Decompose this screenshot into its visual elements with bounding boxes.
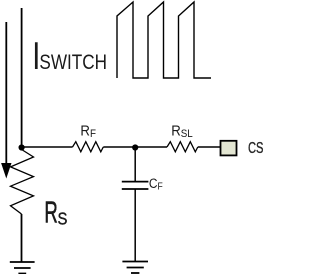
svg-text:CS: CS	[248, 139, 264, 156]
wire rail from node A to R_F	[22, 146, 73, 148]
wire rail R_F to R_SL	[103, 146, 167, 148]
wire C_F to ground	[134, 189, 136, 262]
waveform I_SWITCH sawtooth	[117, 2, 211, 78]
label R_F	[80, 122, 96, 140]
capacitor C_F top plate	[122, 181, 149, 183]
wire node B down to C_F	[134, 148, 136, 182]
svg-text:RF: RF	[80, 122, 96, 140]
wire R_SL to CS pin	[198, 146, 220, 148]
svg-text:CF: CF	[149, 175, 163, 192]
label I_SWITCH	[32, 35, 107, 78]
ground (left)	[10, 262, 35, 274]
node A junction dot	[19, 144, 25, 150]
svg-text:R: R	[44, 196, 57, 230]
node B junction dot	[132, 144, 138, 150]
svg-text:S: S	[57, 210, 67, 229]
label CS	[248, 139, 264, 156]
wire switch-node vertical	[21, 8, 23, 148]
current arrow I_SWITCH shaft	[5, 22, 7, 165]
label R_S	[44, 196, 67, 230]
ground (center)	[122, 262, 148, 274]
resistor R_F	[73, 142, 104, 152]
wire R_S to ground	[21, 214, 23, 262]
svg-text:RSL: RSL	[171, 122, 193, 140]
label R_SL	[171, 122, 193, 140]
resistor R_S	[11, 150, 34, 215]
label C_F	[149, 175, 163, 192]
CS pin box	[221, 141, 237, 156]
capacitor C_F bottom plate	[122, 188, 149, 190]
svg-text:SWITCH: SWITCH	[39, 50, 107, 74]
resistor R_SL	[167, 142, 198, 152]
current arrow I_SWITCH head	[1, 163, 11, 179]
